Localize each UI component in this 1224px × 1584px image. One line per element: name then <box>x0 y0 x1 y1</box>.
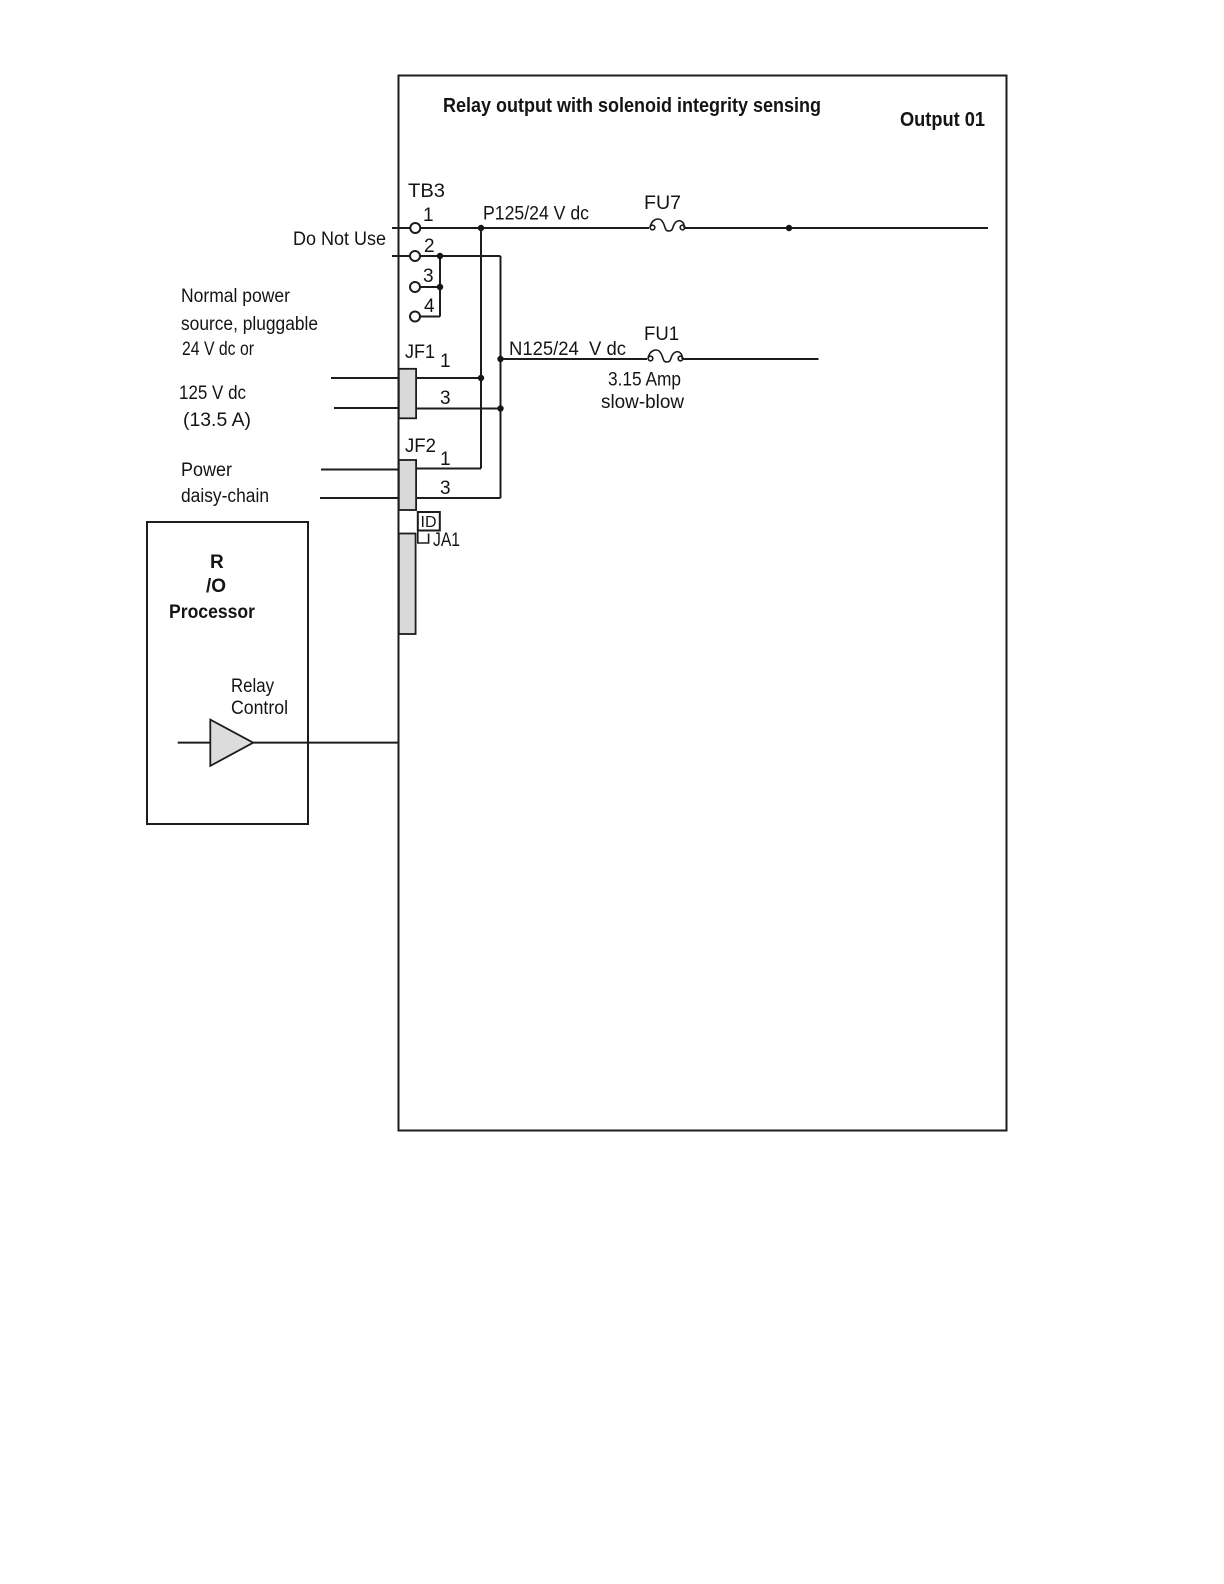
wire FU1 output to K1 contact <box>682 358 819 360</box>
svg-text:1: 1 <box>440 449 451 470</box>
svg-text:24 V dc or: 24 V dc or <box>182 339 255 360</box>
junction JF1 pin1 <box>478 375 484 381</box>
svg-text:125 V dc: 125 V dc <box>179 383 246 404</box>
svg-text:Relay: Relay <box>231 676 274 697</box>
svg-text:2: 2 <box>424 236 435 257</box>
fuse FU1 <box>644 324 683 362</box>
TB3 pin 4 terminal <box>410 296 435 322</box>
wire JF2 pin3 to N vertical <box>416 497 500 499</box>
TB3 pin 2 terminal <box>392 236 435 261</box>
wire JF2 left stub pin3 <box>320 497 399 499</box>
svg-text:JF2: JF2 <box>405 436 436 457</box>
svg-text:Output 01: Output 01 <box>900 109 985 131</box>
svg-text:4: 4 <box>424 296 435 317</box>
junction TB3 pin3 <box>437 284 443 290</box>
TB3 pin 1 terminal <box>392 205 434 233</box>
connector JF2 <box>399 436 451 510</box>
junction N bus <box>497 356 503 362</box>
svg-text:ID: ID <box>421 514 437 531</box>
svg-text:slow-blow: slow-blow <box>601 392 684 413</box>
svg-text:3: 3 <box>440 478 451 499</box>
junction JF1 pin3 <box>497 405 503 411</box>
connector JF1 <box>399 342 451 418</box>
svg-text:Relay output with solenoid int: Relay output with solenoid integrity sen… <box>443 95 821 117</box>
label 125 V dc (13.5 A) <box>179 383 251 431</box>
TB3 pin 3 terminal <box>410 266 434 292</box>
enclosure border of relay output module <box>399 76 1007 1131</box>
wire P125/24 V dc from TB3 pin1 to fuse FU7 <box>421 227 650 229</box>
svg-text:1: 1 <box>423 205 434 226</box>
wire JF1 left stub pin3 <box>334 407 399 409</box>
svg-text:3: 3 <box>423 266 434 287</box>
svg-text:Do Not Use: Do Not Use <box>293 229 386 250</box>
wire relay control to JR1 <box>253 742 399 744</box>
svg-text:TB3: TB3 <box>408 181 445 202</box>
svg-text:JA1: JA1 <box>433 530 460 551</box>
wire ID bracket to JA1 <box>418 531 429 544</box>
svg-text:Power: Power <box>181 460 233 481</box>
label Normal power source, pluggable 24 V dc or <box>181 286 318 360</box>
junction P bus at x481 <box>478 225 484 231</box>
svg-text:Control: Control <box>231 698 288 719</box>
junction TB3 pin2 <box>437 253 443 259</box>
ID box of JA1 <box>418 512 440 531</box>
connector JA1 <box>399 530 460 634</box>
wire JF1 pin3 to N vertical <box>416 408 500 410</box>
wire JF2 pin1 to P vertical <box>416 468 481 470</box>
wire vertical JF1 pin1 to JF2 pin1 <box>480 378 482 469</box>
wire buffer input <box>178 742 211 744</box>
wire FU7 output to Com terminal <box>684 227 988 229</box>
svg-text:FU7: FU7 <box>644 193 681 214</box>
wire N125/24 V dc from vertical to fuse FU1 <box>501 358 648 360</box>
svg-text:N125/24 V dc: N125/24 V dc <box>509 339 626 360</box>
junction P bus at x789 <box>786 225 792 231</box>
buffer relay control driver in R/O processor <box>210 720 253 766</box>
svg-text:(13.5 A): (13.5 A) <box>183 410 251 431</box>
wire JF1 pin1 to P vertical <box>416 377 481 379</box>
svg-text:source, pluggable: source, pluggable <box>181 314 318 335</box>
label Power daisy-chain <box>181 460 269 507</box>
svg-text:3: 3 <box>440 388 451 409</box>
svg-text:P125/24 V dc: P125/24 V dc <box>483 204 589 225</box>
svg-text:Processor: Processor <box>169 602 256 623</box>
svg-text:3.15 Amp: 3.15 Amp <box>608 370 681 391</box>
svg-text:/O: /O <box>206 576 226 597</box>
svg-text:Normal power: Normal power <box>181 286 291 307</box>
svg-text:1: 1 <box>440 351 451 372</box>
fuse FU7 <box>644 193 685 231</box>
svg-text:R: R <box>210 552 224 573</box>
label Relay Control <box>231 676 288 719</box>
svg-text:daisy-chain: daisy-chain <box>181 486 269 507</box>
wire vertical TB3 pin2 to JF2 pin3 <box>500 256 502 498</box>
wire JF2 left stub pin1 <box>321 469 399 471</box>
svg-text:FU1: FU1 <box>644 324 679 345</box>
svg-text:JF1: JF1 <box>405 342 435 363</box>
wire JF1 left stub pin1 <box>331 377 399 379</box>
wire vertical from P junction to JF1 pin1 <box>480 228 482 378</box>
box R/O Processor <box>147 522 308 824</box>
wire TB3 pin2 tie bus <box>420 256 501 317</box>
